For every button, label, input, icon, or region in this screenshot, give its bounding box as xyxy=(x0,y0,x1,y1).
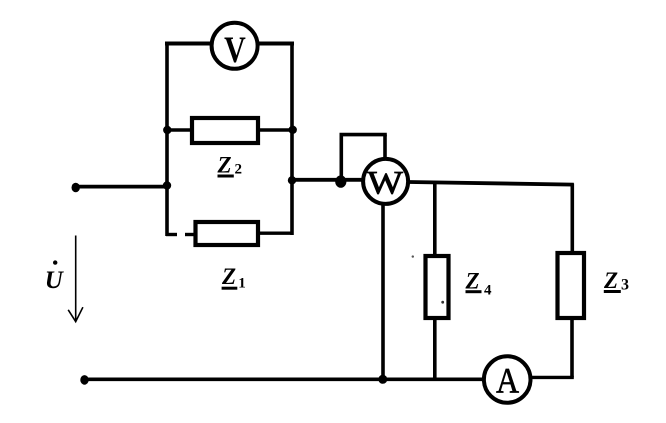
wattmeter U2 circle xyxy=(363,159,408,204)
wire Z2 left lead xyxy=(167,128,192,131)
node right vertical / Z2 junction xyxy=(289,126,297,134)
wire Z1 left lead part 2 xyxy=(185,233,196,236)
impedance Z1 body xyxy=(196,222,259,245)
wire top-right horizontal from voltmeter xyxy=(258,42,294,46)
wire right vertical branch xyxy=(290,42,294,236)
svg-text:2: 2 xyxy=(235,162,243,178)
source arrow shaft xyxy=(75,236,77,322)
svg-text:4: 4 xyxy=(484,282,492,298)
wire Z3 top lead xyxy=(570,184,574,254)
wire voltage-coil loop right vertical xyxy=(383,135,387,159)
wire top-left horizontal to voltmeter xyxy=(165,42,211,46)
source label U dot accent xyxy=(53,260,57,264)
svg-text:Z: Z xyxy=(217,152,232,177)
wire Z3 bottom lead xyxy=(570,318,574,377)
svg-text:1: 1 xyxy=(238,275,246,291)
wire wattmeter right horizontal xyxy=(409,182,574,185)
impedance Z2 label underline xyxy=(218,175,234,178)
svg-text:3: 3 xyxy=(621,276,629,293)
svg-text:Z: Z xyxy=(221,264,236,289)
wire input terminal horizontal xyxy=(75,185,167,189)
svg-text:Z: Z xyxy=(465,268,480,293)
node wattmeter bottom junction xyxy=(378,375,387,384)
svg-text:W: W xyxy=(367,164,403,201)
wire bottom horizontal to ammeter xyxy=(84,377,484,381)
impedance Z2 body xyxy=(192,118,258,143)
wire voltage-coil loop left vertical xyxy=(339,135,343,181)
wire Z2 right lead xyxy=(258,128,292,131)
impedance Z4 label underline xyxy=(466,290,482,293)
wire voltage-coil loop top horizontal xyxy=(340,133,387,137)
node voltage-coil junction xyxy=(335,175,346,187)
node left vertical / Z2 junction xyxy=(163,126,171,134)
svg-text:U: U xyxy=(45,267,65,294)
wire Z1 left lead (with scan gap) xyxy=(166,233,177,236)
node bottom-left terminal xyxy=(80,375,88,385)
voltmeter U1 circle xyxy=(212,23,258,69)
impedance Z3 label underline xyxy=(604,290,621,293)
source arrow head xyxy=(68,307,83,321)
wire ammeter right horizontal xyxy=(531,376,574,379)
node right vertical / output junction xyxy=(288,176,296,184)
node left vertical / input junction xyxy=(163,181,171,189)
wire output to wattmeter xyxy=(292,178,363,182)
impedance Z3 body xyxy=(558,253,585,318)
artifact dot left of Z4 xyxy=(412,255,414,257)
svg-text:A: A xyxy=(496,362,519,401)
ammeter U3 circle xyxy=(484,356,531,403)
impedance Z1 label underline xyxy=(222,287,238,290)
wire Z1 right lead xyxy=(258,231,292,234)
artifact dot inside Z4 xyxy=(441,301,444,304)
wire Z4 bottom lead xyxy=(433,318,437,379)
svg-text:Z: Z xyxy=(603,268,618,293)
node input terminal xyxy=(72,183,80,193)
wire Z4 top lead xyxy=(433,182,437,256)
wire wattmeter bottom lead xyxy=(381,205,385,379)
impedance Z4 body xyxy=(426,256,449,318)
svg-text:V: V xyxy=(224,30,246,71)
wire left vertical branch xyxy=(165,42,169,237)
